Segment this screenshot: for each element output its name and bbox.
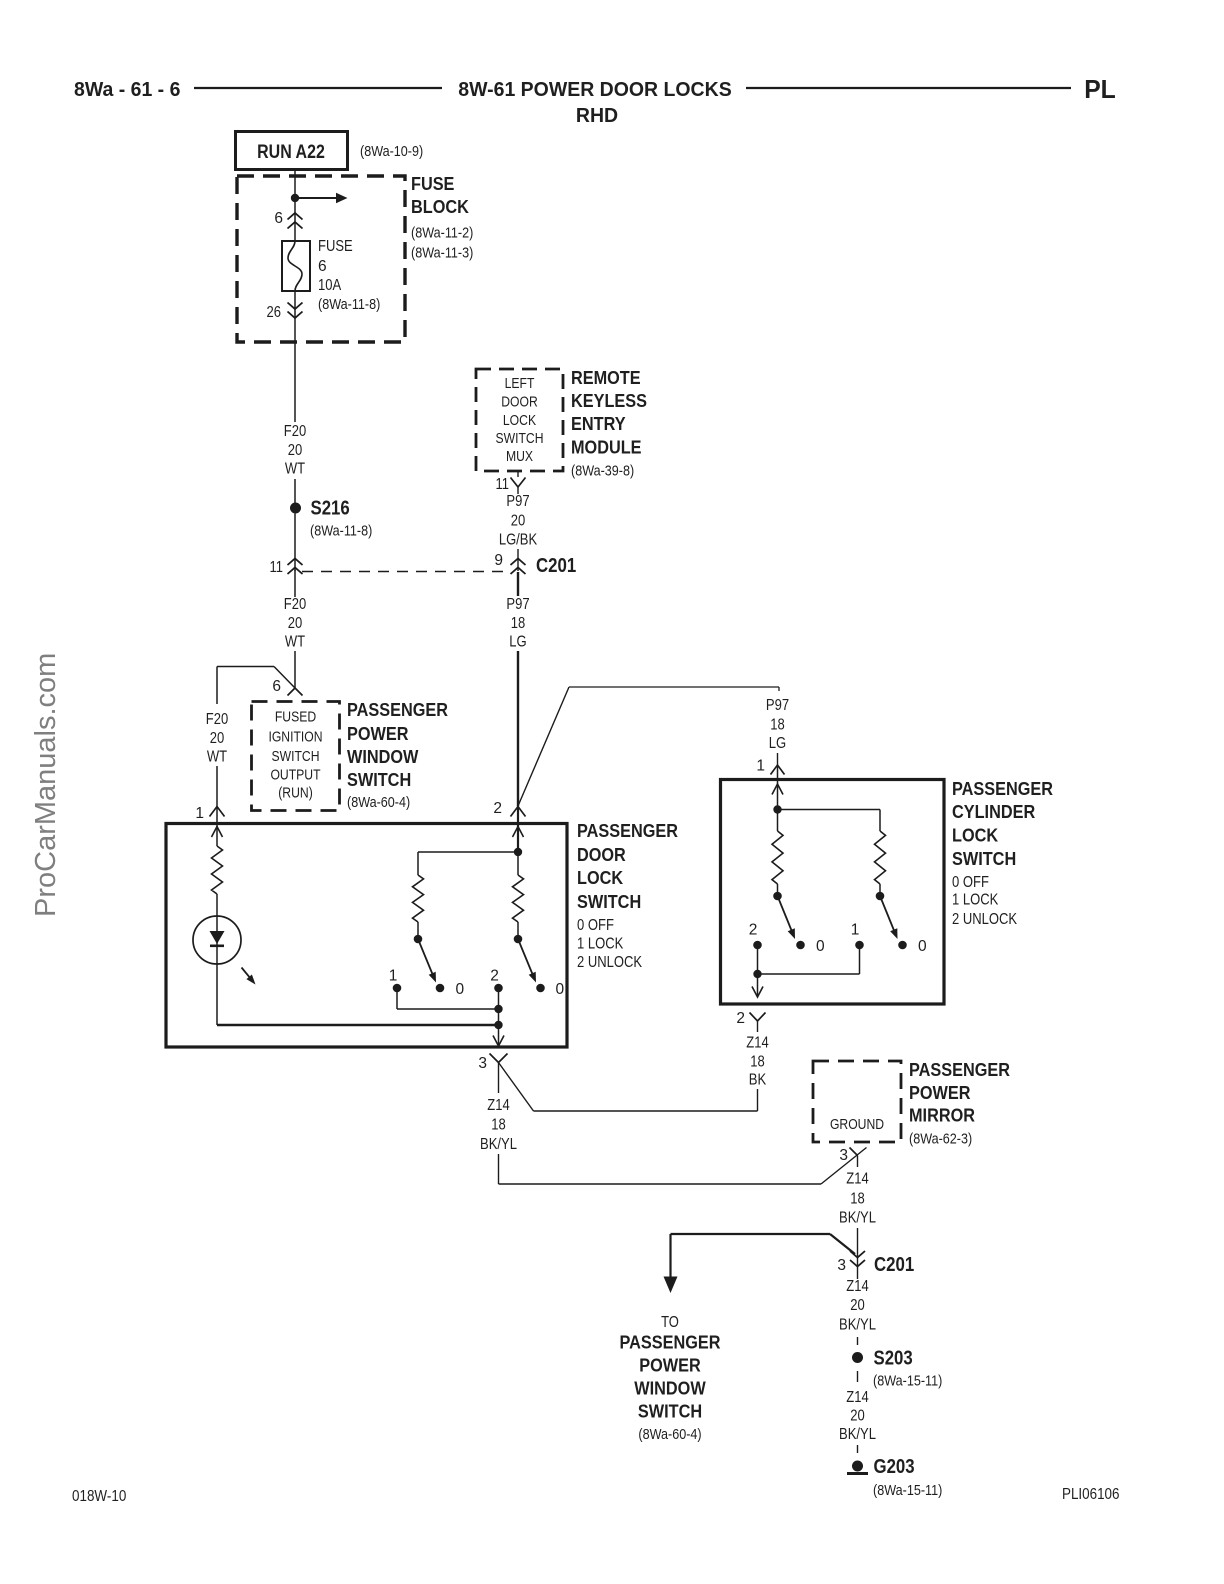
pin 2 label <box>493 800 502 817</box>
connector C201 pin 9 chevrons <box>511 559 526 575</box>
svg-text:(RUN): (RUN) <box>278 786 313 802</box>
cylinder contact 2 dot <box>753 941 762 950</box>
legend 2 UNLOCK <box>577 954 643 971</box>
page header right PL <box>1084 74 1116 104</box>
page header subtitle RHD <box>576 104 618 127</box>
svg-text:1: 1 <box>851 922 860 939</box>
wire color BK/YL <box>839 1317 876 1334</box>
fuse F6 element <box>288 241 302 291</box>
branch arrow down <box>664 1234 678 1293</box>
name SWITCH <box>577 891 641 912</box>
reference (8Wa-11-3) <box>411 245 473 262</box>
contact 1 dot <box>393 984 402 993</box>
svg-text:TO: TO <box>661 1314 679 1331</box>
unlock switch movable arm <box>518 939 536 983</box>
svg-text:WT: WT <box>207 749 228 766</box>
svg-text:POWER: POWER <box>639 1355 701 1376</box>
svg-text:2 UNLOCK: 2 UNLOCK <box>952 911 1018 928</box>
svg-text:F20: F20 <box>284 423 307 440</box>
svg-text:SWITCH: SWITCH <box>496 431 544 447</box>
cylinder pin 2 label <box>736 1010 745 1027</box>
svg-text:20: 20 <box>511 513 526 530</box>
svg-text:20: 20 <box>850 1408 865 1425</box>
svg-text:20: 20 <box>850 1297 865 1314</box>
label GROUND <box>830 1117 884 1133</box>
svg-text:PL: PL <box>1084 74 1116 104</box>
svg-text:DOOR: DOOR <box>577 844 626 865</box>
resistor unlock branch <box>513 875 524 922</box>
cylinder contact 0 dot (left) <box>796 941 805 950</box>
svg-text:(8Wa-11-2): (8Wa-11-2) <box>411 225 473 242</box>
dashed wire below S203 <box>857 1371 859 1382</box>
svg-text:SWITCH: SWITCH <box>577 891 641 912</box>
wire contact 1 to bus <box>397 988 499 1009</box>
svg-text:(8Wa-62-3): (8Wa-62-3) <box>909 1131 972 1148</box>
contact 0 dot (lock side) <box>436 984 445 993</box>
module label LEFT <box>505 376 535 392</box>
cylinder junction dot <box>773 805 781 813</box>
svg-text:LEFT: LEFT <box>505 376 535 392</box>
cylinder left movable arm <box>778 896 796 939</box>
cylinder pin 1 label <box>756 758 765 775</box>
pin 6 label <box>272 678 281 695</box>
junction dot bus 2 <box>494 1021 502 1029</box>
svg-text:ENTRY: ENTRY <box>571 413 626 434</box>
svg-text:POWER: POWER <box>347 723 409 744</box>
svg-text:BK/YL: BK/YL <box>480 1136 517 1153</box>
svg-text:3: 3 <box>478 1055 487 1072</box>
wire gauge 18 <box>770 717 785 734</box>
wire P97 below C201 <box>517 572 519 596</box>
name WINDOW <box>634 1378 706 1399</box>
wire unlock resistor branch <box>517 852 519 875</box>
name SWITCH <box>952 848 1016 869</box>
svg-text:BK: BK <box>749 1072 767 1089</box>
wire to right contact <box>879 884 881 892</box>
name PASSENGER <box>577 820 678 841</box>
svg-text:MODULE: MODULE <box>571 437 642 458</box>
svg-text:LOCK: LOCK <box>577 867 624 888</box>
svg-text:PASSENGER: PASSENGER <box>620 1332 721 1353</box>
wire Z14 BK down to junction <box>757 1089 759 1111</box>
pin 3 label <box>837 1257 846 1274</box>
wire gauge 20 <box>511 513 526 530</box>
svg-text:C201: C201 <box>536 555 576 577</box>
wire Z14 to C201 pin 3 <box>857 1228 859 1253</box>
svg-text:DOOR: DOOR <box>501 395 538 411</box>
svg-text:REMOTE: REMOTE <box>571 367 641 388</box>
svg-text:2: 2 <box>493 800 502 817</box>
contact 0 dot (unlock side) <box>536 984 545 993</box>
fuse block pin 6 connector chevrons <box>288 213 303 229</box>
wire P97 down to door switch pin 2 <box>517 651 519 806</box>
svg-text:FUSE: FUSE <box>411 173 454 194</box>
wire label F20 <box>284 423 307 440</box>
branch wire to cylinder lock switch <box>518 687 779 806</box>
svg-text:F20: F20 <box>206 711 229 728</box>
wire segment to splice S216 <box>294 479 296 503</box>
svg-text:(8Wa-11-3): (8Wa-11-3) <box>411 245 473 262</box>
wire color LG <box>509 634 526 651</box>
wire label F20 <box>206 711 229 728</box>
wire label Z14 <box>846 1389 869 1406</box>
wire gauge 18 <box>750 1054 765 1071</box>
cylinder contact 0 label (left) <box>816 938 825 955</box>
svg-text:BK/YL: BK/YL <box>839 1210 876 1227</box>
mirror pin 3 connector <box>850 1148 858 1168</box>
svg-text:LOCK: LOCK <box>952 825 999 846</box>
svg-text:S216: S216 <box>311 498 350 520</box>
svg-text:ProCarManuals.com: ProCarManuals.com <box>30 653 62 917</box>
module label SWITCH <box>496 431 544 447</box>
pin 2 internal arrowhead <box>513 827 524 838</box>
svg-text:20: 20 <box>210 730 225 747</box>
wire gauge 18 <box>511 615 526 632</box>
wire Z14 to ground run <box>499 1148 867 1185</box>
svg-text:WT: WT <box>285 634 306 651</box>
svg-text:6: 6 <box>318 258 327 275</box>
label G203 <box>874 1456 915 1478</box>
pin 9 label <box>494 552 503 569</box>
cylinder junction dot bus <box>753 970 761 978</box>
module label DOOR <box>501 395 538 411</box>
svg-text:6: 6 <box>272 678 281 695</box>
svg-text:Z14: Z14 <box>746 1035 769 1052</box>
resistor in lamp branch <box>212 846 223 894</box>
svg-text:LG: LG <box>509 634 526 651</box>
reference (8Wa-11-2) <box>411 225 473 242</box>
svg-text:Z14: Z14 <box>846 1389 869 1406</box>
name ENTRY <box>571 413 626 434</box>
label RUN A22 <box>257 142 325 163</box>
cylinder pin 1 internal arrowhead <box>772 784 783 795</box>
fused ignition switch output dashed outline <box>252 702 340 811</box>
svg-text:SWITCH: SWITCH <box>347 769 411 790</box>
wire label Z14 <box>846 1171 869 1188</box>
reference (8Wa-60-4) <box>638 1426 701 1443</box>
door switch pin 2 connector <box>511 807 526 817</box>
passenger power mirror dashed outline <box>813 1061 901 1142</box>
svg-text:2 UNLOCK: 2 UNLOCK <box>577 954 643 971</box>
svg-text:18: 18 <box>850 1191 865 1208</box>
svg-text:KEYLESS: KEYLESS <box>571 390 647 411</box>
svg-text:18: 18 <box>491 1117 506 1134</box>
svg-text:P97: P97 <box>506 596 529 613</box>
lamp diode bar <box>210 944 224 947</box>
label SWITCH <box>272 749 320 765</box>
wire to unlock contact <box>517 922 519 936</box>
label C201 <box>536 555 576 577</box>
svg-text:(8Wa-60-4): (8Wa-60-4) <box>638 1426 701 1443</box>
door switch pin 1 connector <box>210 807 225 817</box>
illumination lamp circle <box>193 916 241 964</box>
header rule right <box>746 87 1071 89</box>
wire gauge 20 <box>850 1297 865 1314</box>
label BLOCK <box>411 196 469 217</box>
svg-text:1: 1 <box>389 968 398 985</box>
svg-text:(8Wa-15-11): (8Wa-15-11) <box>873 1482 942 1499</box>
passenger cylinder lock switch outline <box>721 780 945 1005</box>
junction dot bus 1 <box>494 1005 502 1013</box>
wire junction to lock resistor <box>418 852 518 875</box>
name PASSENGER <box>909 1059 1010 1080</box>
svg-text:3: 3 <box>837 1257 846 1274</box>
svg-text:2: 2 <box>736 1010 745 1027</box>
svg-text:P97: P97 <box>506 493 529 510</box>
name KEYLESS <box>571 390 647 411</box>
cylinder pin 2 internal arrowhead <box>752 987 763 998</box>
reference (8Wa-10-9) <box>360 143 423 160</box>
passenger door lock switch outline <box>166 824 567 1048</box>
wire label P97 <box>766 697 789 714</box>
svg-text:Z14: Z14 <box>487 1097 510 1114</box>
module label LOCK <box>503 413 536 429</box>
wire color BK <box>749 1072 767 1089</box>
svg-text:18: 18 <box>511 615 526 632</box>
svg-text:CYLINDER: CYLINDER <box>952 801 1035 822</box>
svg-text:PASSENGER: PASSENGER <box>577 820 678 841</box>
svg-text:PASSENGER: PASSENGER <box>909 1059 1010 1080</box>
wire color LG <box>769 735 786 752</box>
svg-text:P97: P97 <box>766 697 789 714</box>
svg-text:MUX: MUX <box>506 449 533 465</box>
reference (8Wa-11-8) <box>310 523 372 540</box>
name PASSENGER <box>347 699 448 720</box>
svg-text:10A: 10A <box>318 277 342 294</box>
svg-text:0 OFF: 0 OFF <box>577 917 614 934</box>
svg-text:0: 0 <box>816 938 825 955</box>
name LOCK <box>577 867 624 888</box>
svg-text:OUTPUT: OUTPUT <box>270 768 320 784</box>
wire gauge 18 <box>491 1117 506 1134</box>
svg-text:0: 0 <box>556 981 565 998</box>
wire contact 2 to pin 2 <box>757 945 759 997</box>
svg-text:RUN A22: RUN A22 <box>257 142 325 163</box>
svg-text:POWER: POWER <box>909 1082 971 1103</box>
cylinder right common contact dot <box>876 892 885 901</box>
contact 2 dot <box>494 984 503 993</box>
footer code PLI06106 <box>1062 1486 1120 1503</box>
svg-text:IGNITION: IGNITION <box>268 730 322 746</box>
name MIRROR <box>909 1105 975 1126</box>
svg-text:WINDOW: WINDOW <box>347 746 419 767</box>
label IGNITION <box>268 730 322 746</box>
name POWER <box>639 1355 701 1376</box>
lamp indicator arrow <box>242 968 256 985</box>
svg-text:018W-10: 018W-10 <box>72 1488 126 1505</box>
wire below C201 pin 3 <box>857 1253 859 1279</box>
contact 0 label (lock side) <box>456 981 465 998</box>
wire contact 2 to pin 3 <box>498 988 500 1046</box>
svg-text:(8Wa-39-8): (8Wa-39-8) <box>571 463 634 480</box>
cylinder right movable arm <box>880 896 898 939</box>
legend 2 UNLOCK <box>952 911 1018 928</box>
name CYLINDER <box>952 801 1035 822</box>
svg-text:LOCK: LOCK <box>503 413 536 429</box>
branch arrow to other circuits <box>295 193 348 203</box>
branch wire to door lock switch pin 1 <box>217 667 295 689</box>
wire color BK/YL <box>839 1210 876 1227</box>
resistor lock branch <box>413 875 424 922</box>
fuse label 6 <box>318 258 327 275</box>
label OUTPUT <box>270 768 320 784</box>
svg-text:FUSE: FUSE <box>318 238 353 255</box>
pin 3 label <box>478 1055 487 1072</box>
cylinder contact 1 dot <box>855 941 864 950</box>
svg-text:G203: G203 <box>874 1456 915 1478</box>
svg-text:11: 11 <box>270 559 284 576</box>
fuse value 10A <box>318 277 342 294</box>
svg-text:LG: LG <box>769 735 786 752</box>
name PASSENGER <box>620 1332 721 1353</box>
wire lamp bus horizontal <box>217 1024 499 1026</box>
name LOCK <box>952 825 999 846</box>
wire F20 segment below fuse block <box>294 342 296 422</box>
page header left id <box>74 78 180 101</box>
pin 11 label <box>270 559 284 576</box>
name POWER <box>909 1082 971 1103</box>
wire color WT <box>285 634 306 651</box>
splice S216 dot <box>290 503 301 514</box>
pin 3 internal arrowhead <box>493 1036 504 1047</box>
wire segment to pin 1 <box>216 667 218 705</box>
unlock switch common contact dot <box>514 935 523 944</box>
connector C201 pin 3 chevrons <box>850 1251 865 1267</box>
wire gauge 20 <box>210 730 225 747</box>
svg-text:PASSENGER: PASSENGER <box>952 778 1053 799</box>
svg-text:6: 6 <box>274 210 283 227</box>
module pin 11 label <box>496 476 510 493</box>
svg-text:0: 0 <box>918 938 927 955</box>
resistor cylinder right <box>875 831 886 884</box>
svg-text:F20: F20 <box>284 596 307 613</box>
svg-text:Z14: Z14 <box>846 1278 869 1295</box>
svg-text:9: 9 <box>494 552 503 569</box>
reference (8Wa-62-3) <box>909 1131 972 1148</box>
branch wire to power window switch <box>671 1234 856 1254</box>
wire resistor to lamp <box>216 894 218 950</box>
svg-text:RHD: RHD <box>576 104 618 127</box>
wire gauge 20 <box>288 615 303 632</box>
splice S203 dot <box>852 1352 863 1363</box>
pin 1 internal arrowhead <box>212 827 223 838</box>
wire to C201 pin 9 <box>517 549 519 571</box>
mirror pin 3 label <box>839 1147 848 1164</box>
fuse block dashed outline <box>237 176 405 342</box>
window switch pin 6 connector <box>288 688 303 696</box>
cylinder contact 0 dot (right) <box>898 941 907 950</box>
svg-text:0 OFF: 0 OFF <box>952 874 989 891</box>
label FUSE <box>411 173 454 194</box>
wire segment into pin 1 <box>216 766 218 846</box>
junction dot in fuse block <box>291 194 299 202</box>
svg-text:PASSENGER: PASSENGER <box>347 699 448 720</box>
page header title <box>458 78 731 101</box>
name WINDOW <box>347 746 419 767</box>
svg-text:8W-61 POWER DOOR LOCKS: 8W-61 POWER DOOR LOCKS <box>458 78 731 101</box>
connector C201 pin 11 chevrons <box>288 559 303 575</box>
wire fuse to fuse block edge <box>294 291 296 342</box>
svg-text:(8Wa-10-9): (8Wa-10-9) <box>360 143 423 160</box>
reference (8Wa-15-11) <box>873 1373 942 1390</box>
svg-text:C201: C201 <box>874 1254 914 1276</box>
dashed wire to G203 <box>857 1445 859 1453</box>
junction dot pin 2 <box>514 848 522 856</box>
name MODULE <box>571 437 642 458</box>
power feed box RUN A22 <box>236 132 348 170</box>
lock switch movable arm <box>418 939 436 983</box>
cylinder switch pin 2 connector <box>750 1013 766 1033</box>
name POWER <box>347 723 409 744</box>
wire gauge 20 <box>850 1408 865 1425</box>
wire color WT <box>207 749 228 766</box>
svg-text:3: 3 <box>839 1147 848 1164</box>
svg-text:0: 0 <box>456 981 465 998</box>
wire color WT <box>285 461 306 478</box>
svg-text:(8Wa-60-4): (8Wa-60-4) <box>347 794 410 811</box>
cylinder contact 0 label (right) <box>918 938 927 955</box>
wire label P97 <box>506 493 529 510</box>
name SWITCH <box>638 1401 702 1422</box>
wire label P97 <box>506 596 529 613</box>
resistor cylinder left <box>772 831 783 884</box>
module pin 11 connector <box>511 471 526 494</box>
wire to left contact <box>777 884 779 892</box>
lock switch common contact dot <box>414 935 423 944</box>
svg-text:GROUND: GROUND <box>830 1117 884 1133</box>
svg-text:18: 18 <box>750 1054 765 1071</box>
cylinder left common contact dot <box>773 892 782 901</box>
svg-text:LG/BK: LG/BK <box>499 532 538 549</box>
wire label Z14 <box>746 1035 769 1052</box>
svg-text:BK/YL: BK/YL <box>839 1317 876 1334</box>
svg-text:SWITCH: SWITCH <box>638 1401 702 1422</box>
svg-text:2: 2 <box>490 968 499 985</box>
wire from RUN A22 into fuse block <box>294 170 296 242</box>
svg-text:(8Wa-11-8): (8Wa-11-8) <box>318 296 380 313</box>
name SWITCH <box>347 769 411 790</box>
reference (8Wa-60-4) <box>347 794 410 811</box>
svg-text:(8Wa-11-8): (8Wa-11-8) <box>310 523 372 540</box>
legend 0 OFF <box>952 874 989 891</box>
fuse block pin 26 connector chevrons <box>288 303 303 319</box>
svg-text:1: 1 <box>756 758 765 775</box>
wire pin 2 into switch <box>517 806 519 852</box>
footer sheet number 018W-10 <box>72 1488 126 1505</box>
svg-text:20: 20 <box>288 442 303 459</box>
svg-text:18: 18 <box>770 717 785 734</box>
svg-text:26: 26 <box>267 304 282 321</box>
svg-text:1: 1 <box>195 805 204 822</box>
wire label F20 <box>284 596 307 613</box>
fuse F6 body <box>282 241 310 291</box>
name DOOR <box>577 844 626 865</box>
watermark ProCarManuals.com <box>30 653 62 917</box>
name REMOTE <box>571 367 641 388</box>
wire color LG/BK <box>499 532 538 549</box>
wire label Z14 <box>487 1097 510 1114</box>
dashed wire to S203 <box>857 1337 859 1345</box>
branch wire pin3 to cylinder switch wire <box>499 1063 758 1112</box>
header rule left <box>194 87 442 89</box>
door switch pin 3 connector <box>490 1054 508 1063</box>
legend 0 OFF <box>577 917 614 934</box>
lamp diode triangle <box>210 931 225 944</box>
svg-text:11: 11 <box>496 476 510 493</box>
wire Z14 below pin 3 <box>498 1063 500 1094</box>
pin 26 label <box>267 304 282 321</box>
svg-text:SWITCH: SWITCH <box>952 848 1016 869</box>
